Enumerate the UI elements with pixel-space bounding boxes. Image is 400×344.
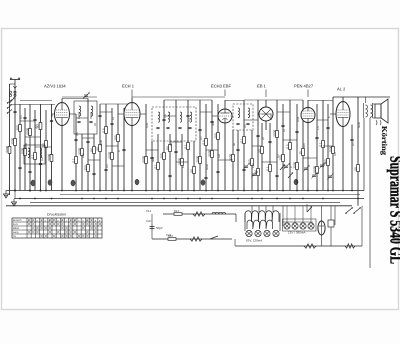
junction dot x152 y198 bbox=[151, 198, 153, 200]
resistor 5000 on x182 bbox=[177, 157, 183, 165]
svg-text:0,5: 0,5 bbox=[76, 132, 79, 136]
tube V6 AL 2 output bbox=[336, 102, 350, 127]
svg-text:Supramar S 5340 GL: Supramar S 5340 GL bbox=[387, 156, 400, 264]
wire vertical x158 bbox=[157, 134, 159, 191]
dial lamp x267 bbox=[264, 230, 270, 236]
wire top to T2 bbox=[100, 103, 132, 105]
wire vertical x358 bbox=[357, 97, 359, 206]
junction dot x297 y190 bbox=[296, 190, 298, 192]
potentiometer P1 (dark oval) bbox=[31, 180, 35, 186]
resistor 0,5 on x106 bbox=[101, 127, 107, 134]
wire lamp feed bbox=[282, 206, 284, 226]
svg-text:5000: 5000 bbox=[77, 147, 81, 154]
svg-text:100: 100 bbox=[213, 133, 217, 138]
wire bus (y202) bbox=[30, 201, 340, 203]
wire bbox=[151, 214, 153, 224]
scattered value labels bbox=[20, 114, 361, 170]
wire T4 top bbox=[265, 100, 267, 107]
svg-text:50: 50 bbox=[353, 167, 357, 171]
resistor 5000 on x112 bbox=[107, 151, 113, 159]
junction dot x82 y198 bbox=[81, 198, 83, 200]
capacitor on x317 bbox=[315, 137, 318, 138]
resistor 5000 on x233 bbox=[228, 153, 234, 161]
wire T6 down bbox=[342, 127, 344, 191]
svg-text:0,1: 0,1 bbox=[200, 136, 203, 140]
wire transformer right leg bbox=[279, 213, 281, 231]
ground (left) bbox=[3, 191, 8, 198]
wire T4 label lead bbox=[265, 90, 267, 98]
svg-text:100: 100 bbox=[82, 153, 85, 158]
svg-text:0,1: 0,1 bbox=[153, 164, 157, 169]
wire T2 cathode down bbox=[131, 126, 133, 191]
wire bbox=[234, 239, 236, 246]
svg-text:0,1: 0,1 bbox=[71, 158, 75, 163]
junction dot x333 y190 bbox=[332, 190, 334, 192]
junction dot x317 y190 bbox=[316, 190, 318, 192]
wire bbox=[370, 117, 372, 118]
svg-text:25: 25 bbox=[262, 137, 265, 140]
wire rectifier top bbox=[321, 206, 323, 221]
junction dot x88 y190 bbox=[87, 190, 89, 192]
capacitor on x88 bbox=[86, 141, 89, 142]
junction dot x35 y198 bbox=[34, 198, 36, 200]
wire vertical x218 bbox=[217, 104, 219, 191]
resistor 100 on x218 bbox=[213, 133, 219, 140]
wire T5 label lead bbox=[307, 90, 309, 98]
svg-text:0,5: 0,5 bbox=[101, 128, 105, 133]
wire vertical x262 bbox=[261, 123, 263, 191]
capacitor on x258 bbox=[256, 135, 259, 136]
svg-text:300: 300 bbox=[15, 125, 19, 130]
svg-text:300: 300 bbox=[35, 124, 38, 129]
IF trim capacitor 1 bbox=[156, 127, 159, 128]
junction dot x106 y198 bbox=[105, 198, 107, 200]
wire to speaker bottom bbox=[373, 117, 376, 119]
wire T5 top bbox=[307, 100, 309, 108]
wire vertical x94 bbox=[93, 134, 95, 191]
resistor 1M on x258 bbox=[253, 169, 259, 176]
wire transformer tap x273 bbox=[272, 206, 274, 212]
IF trim capacitor 3 bbox=[178, 127, 181, 128]
capacitor on x94 bbox=[92, 173, 95, 174]
resistor 5000 on x277 bbox=[272, 129, 278, 137]
wire vertical x352 bbox=[351, 125, 353, 191]
tube V5 PEN 4B27 bbox=[301, 108, 315, 123]
electrolytic capacitor 4 (dark oval) bbox=[294, 179, 298, 185]
output transformer secondary bbox=[371, 105, 373, 117]
svg-text:5000: 5000 bbox=[207, 149, 211, 156]
trimmer capacitor with arrow bbox=[283, 163, 290, 169]
junction dot x158 y190 bbox=[157, 190, 159, 192]
wire in box bbox=[78, 112, 80, 119]
wire vertical x146 bbox=[145, 104, 147, 191]
svg-text:5000: 5000 bbox=[5, 145, 9, 152]
IF transformer box (dashed) bbox=[152, 107, 196, 141]
resistor 300 on x252 bbox=[247, 159, 253, 166]
svg-text:1500: 1500 bbox=[328, 145, 332, 152]
antenna plug contact E2 bbox=[9, 94, 11, 96]
switch on x9.5 bbox=[10, 97, 15, 103]
capacitor on x106 bbox=[104, 169, 107, 170]
junction dot x30 y190 bbox=[29, 190, 31, 192]
pilot lamp box bbox=[283, 219, 317, 231]
trimmer capacitor 2 in upper box bbox=[89, 121, 92, 122]
wire vertical x88 bbox=[87, 99, 89, 191]
wire vertical x124 bbox=[123, 108, 125, 191]
IF trim capacitor 2 bbox=[166, 127, 169, 128]
wire vertical x258 bbox=[257, 100, 259, 191]
wire lamp lead x295 bbox=[294, 206, 296, 223]
pilot lamp x295 bbox=[292, 223, 298, 229]
svg-text:ECH3 EBF: ECH3 EBF bbox=[211, 84, 232, 89]
wire top rail output bbox=[333, 96, 390, 98]
junction dot x233 y190 bbox=[232, 190, 234, 192]
svg-text:Körting: Körting bbox=[380, 126, 389, 155]
svg-text:5000: 5000 bbox=[228, 153, 232, 160]
capacitor on x212 bbox=[210, 121, 213, 122]
mains transformer primary winding (loop chain) bbox=[245, 211, 279, 222]
antenna plug contact E1 bbox=[9, 91, 11, 93]
svg-text:0,1: 0,1 bbox=[265, 166, 269, 171]
wire vertical x106 bbox=[105, 104, 107, 191]
svg-text:50: 50 bbox=[189, 169, 193, 173]
svg-text:Drucktasten: Drucktasten bbox=[47, 213, 66, 217]
wire T1 top rail bbox=[62, 96, 97, 98]
capacitor on x164 bbox=[162, 119, 165, 120]
IF coil 1 bbox=[158, 112, 160, 122]
coil secondary in upper box bbox=[91, 106, 93, 116]
svg-text:AZ/V3 1834: AZ/V3 1834 bbox=[44, 84, 66, 89]
junction dot x182 y190 bbox=[181, 190, 183, 192]
short interconnect wires bbox=[20, 112, 333, 166]
wire transformer right bbox=[372, 103, 374, 118]
capacitor on x35 bbox=[33, 119, 36, 120]
choke row A bbox=[212, 212, 226, 214]
IF transformer box 2 bbox=[233, 104, 253, 130]
mains transformer secondary winding (loop chain) bbox=[247, 220, 273, 229]
junction dot x200 y198 bbox=[199, 198, 201, 200]
junction dot x15 y190 bbox=[14, 190, 16, 192]
speaker field coil bbox=[376, 120, 381, 125]
wire bbox=[245, 233, 246, 235]
wire vertical x170 bbox=[169, 134, 171, 191]
wire vertical x15 bbox=[14, 96, 16, 191]
svg-text:10: 10 bbox=[112, 117, 115, 120]
svg-text:300: 300 bbox=[212, 121, 215, 126]
svg-text:5000: 5000 bbox=[312, 165, 316, 172]
band filter box (lower left) bbox=[24, 145, 45, 164]
svg-text:0,1: 0,1 bbox=[183, 144, 187, 149]
svg-text:0,1: 0,1 bbox=[318, 142, 322, 147]
wire transformer tap x252 bbox=[251, 206, 253, 212]
wire rectifier bottom bbox=[321, 235, 323, 246]
svg-text:5000: 5000 bbox=[47, 153, 51, 160]
wire selector bbox=[306, 204, 308, 212]
wire vertical x362 power bbox=[361, 206, 363, 246]
junction dot x164 y198 bbox=[163, 198, 165, 200]
IF2 coil 2 bbox=[248, 108, 250, 118]
IF coil 3 bbox=[180, 112, 182, 122]
svg-text:0,1: 0,1 bbox=[20, 115, 23, 119]
capacitor on x51.5 bbox=[50, 120, 53, 121]
pilot lamp x303 bbox=[300, 223, 306, 229]
wire T6 top bbox=[342, 97, 344, 102]
wire bus chassis (y206) bbox=[6, 205, 352, 207]
wire vertical x323 bbox=[322, 100, 324, 191]
wire vertical x290 bbox=[289, 100, 291, 191]
wire vertical x164 bbox=[163, 100, 165, 191]
junction dot x290 y198 bbox=[289, 198, 291, 200]
resistor zigzag bottom power rail bbox=[304, 244, 316, 248]
resistor 614 row A bbox=[174, 209, 182, 216]
wire lamp lead x287 bbox=[286, 206, 288, 223]
junction dot x328 y190 bbox=[327, 190, 329, 192]
IF2 coil 1 bbox=[238, 108, 240, 118]
resistor 100 on x283 bbox=[278, 155, 284, 162]
junction dot x323 y198 bbox=[322, 198, 324, 200]
capacitor on x100 bbox=[98, 115, 101, 116]
wire vertical x182 bbox=[181, 134, 183, 191]
wire T5 down bbox=[307, 123, 309, 191]
IF coil 2 bbox=[168, 112, 170, 122]
resistor 300 on x328 bbox=[323, 159, 329, 166]
wire vertical x335 power bbox=[334, 206, 336, 225]
wire vertical x328 bbox=[327, 104, 329, 191]
svg-text:5000: 5000 bbox=[177, 157, 181, 164]
wire transformer left leg bbox=[244, 213, 246, 231]
resistor 2000 on x200 bbox=[195, 155, 201, 163]
resistor 50 on x100 bbox=[95, 145, 101, 152]
trimmer capacitor with arrow bbox=[243, 163, 250, 169]
wire T2 top bbox=[131, 98, 133, 103]
rule separating title margin bbox=[369, 118, 371, 268]
wire vertical x206 bbox=[205, 104, 207, 191]
resistor 0,5 on x290 bbox=[285, 143, 291, 150]
dial lamp x258 bbox=[255, 230, 261, 236]
junction dot x118 y198 bbox=[117, 198, 119, 200]
wire bus (y198) bbox=[14, 198, 364, 200]
capacitor on x218 bbox=[216, 171, 219, 172]
resistor 0,1 on x188 bbox=[183, 143, 189, 150]
svg-text:5000: 5000 bbox=[25, 127, 29, 134]
junction dot x100 y190 bbox=[99, 190, 101, 192]
capacitor on x244 bbox=[242, 169, 245, 170]
trimmer capacitor with arrow bbox=[311, 172, 318, 178]
potentiometer P2 (dark oval) bbox=[48, 180, 52, 186]
capacitor on x206 bbox=[204, 177, 207, 178]
capacitor on x283 bbox=[281, 125, 284, 126]
capacitor on x112 bbox=[110, 123, 113, 124]
svg-text:63V, 120mA: 63V, 120mA bbox=[246, 239, 262, 243]
junction dot x352 y190 bbox=[351, 190, 353, 192]
junction dot x343 y190 bbox=[342, 190, 344, 192]
resistor 5000 on x51.5 bbox=[47, 153, 53, 161]
wire vertical x40.5 bbox=[40, 104, 42, 191]
wire top rail left bbox=[20, 100, 52, 102]
junction dot x112 y190 bbox=[111, 190, 113, 192]
resistor 0,1 on x323 bbox=[318, 141, 324, 148]
wire T1 right electrode bbox=[70, 113, 77, 115]
svg-text:2000: 2000 bbox=[270, 114, 273, 120]
wire row A to transformer bbox=[235, 214, 237, 222]
resistor 50 on x46 bbox=[41, 141, 47, 148]
capacitor on x15 bbox=[13, 111, 16, 112]
junction dot x176 y198 bbox=[175, 198, 177, 200]
svg-text:0,1: 0,1 bbox=[352, 142, 355, 146]
capacitor on x25 bbox=[23, 117, 26, 118]
antenna plug contact A1 bbox=[14, 91, 16, 93]
svg-text:2000: 2000 bbox=[195, 155, 199, 162]
wire vertical x76 bbox=[75, 114, 77, 191]
svg-text:50: 50 bbox=[51, 114, 54, 117]
svg-text:1M: 1M bbox=[165, 146, 169, 151]
resistor 634 row B bbox=[168, 234, 176, 241]
wire vertical x244 bbox=[243, 100, 245, 191]
svg-text:0,3: 0,3 bbox=[334, 152, 337, 156]
svg-text:50: 50 bbox=[257, 149, 261, 153]
trimmer capacitor with arrow bbox=[319, 162, 326, 168]
svg-text:Bereich: Bereich bbox=[13, 219, 22, 222]
capacitor on x76 bbox=[74, 139, 77, 140]
IF trim capacitor 4 bbox=[188, 127, 191, 128]
capacitor on x124 bbox=[122, 149, 125, 150]
svg-text:500: 500 bbox=[152, 157, 155, 162]
wire from mains comp bbox=[330, 227, 332, 246]
switch (range) bbox=[288, 172, 293, 178]
svg-text:100: 100 bbox=[252, 163, 255, 168]
resistor 5000 on x30 bbox=[25, 127, 31, 135]
svg-text:10: 10 bbox=[283, 129, 286, 132]
svg-text:5000: 5000 bbox=[272, 129, 276, 136]
wire vertical x364 bbox=[363, 118, 365, 191]
wire vertical x317 bbox=[316, 104, 318, 191]
capacitor on x152 bbox=[150, 157, 153, 158]
wire bbox=[14, 191, 16, 199]
tube V2 ECH 1 bbox=[124, 103, 140, 126]
svg-text:Kurz: Kurz bbox=[13, 223, 19, 226]
junction dot x262 y198 bbox=[261, 198, 263, 200]
wire vertical x118 bbox=[117, 104, 119, 191]
junction dot x258 y190 bbox=[257, 190, 259, 192]
wire vertical x252 bbox=[251, 130, 253, 191]
svg-text:0,2: 0,2 bbox=[277, 154, 280, 158]
wire T3 down bbox=[224, 123, 226, 191]
capacitor on x170 bbox=[168, 175, 171, 176]
svg-text:1M: 1M bbox=[89, 148, 93, 153]
svg-text:1,5: 1,5 bbox=[317, 126, 320, 130]
resistor 0,1 on x158 bbox=[153, 163, 159, 170]
wire transformer tap x266 bbox=[265, 206, 267, 212]
table header ticks bbox=[28, 219, 101, 222]
junction dot x303 y198 bbox=[302, 198, 304, 200]
resistor 5000 on x146 bbox=[141, 155, 147, 163]
capacitor on x176 bbox=[174, 151, 177, 152]
resistor 5000 on x9.5 bbox=[5, 145, 11, 153]
resistor 1M on x170 bbox=[165, 145, 171, 152]
electrolytic capacitor 3 (dark oval) bbox=[201, 180, 205, 186]
wire T2 label lead bbox=[131, 90, 133, 99]
wire vertical x194 bbox=[193, 141, 195, 191]
IF2 trim cap 1 bbox=[236, 123, 239, 124]
dial lamp x249 bbox=[246, 230, 252, 236]
junction dot x132 y190 bbox=[131, 190, 133, 192]
junction dot x76 y190 bbox=[75, 190, 77, 192]
pilot lamp x287 bbox=[284, 223, 290, 229]
wire T3 grid bbox=[212, 115, 218, 117]
svg-text:0,1: 0,1 bbox=[239, 138, 243, 143]
pilot lamp x311 bbox=[308, 223, 314, 229]
capacitor on x200 bbox=[198, 129, 201, 130]
capacitor on x352 bbox=[350, 139, 353, 140]
capacitor on x328 bbox=[326, 127, 329, 128]
mains plug component bbox=[328, 220, 334, 227]
electrolytic capacitor (dark oval) bbox=[71, 180, 75, 186]
voltage selector arrow bbox=[307, 206, 312, 212]
resistor 5000 on x82 bbox=[77, 147, 83, 155]
wire vertical x46 bbox=[45, 110, 47, 191]
junction dot x20 y198 bbox=[19, 198, 21, 200]
junction dot x170 y190 bbox=[169, 190, 171, 192]
svg-text:0,5: 0,5 bbox=[285, 144, 289, 149]
wire bottom power rail y246 bbox=[235, 245, 362, 247]
svg-text:5000: 5000 bbox=[358, 122, 361, 128]
trimmer capacitor with arrow bbox=[327, 173, 334, 179]
svg-text:300: 300 bbox=[159, 153, 163, 158]
resistor 300 on x164 bbox=[159, 153, 165, 160]
svg-text:50µF: 50µF bbox=[156, 226, 163, 230]
svg-text:PEN 4B27: PEN 4B27 bbox=[294, 84, 314, 89]
resistor 300 on x20 bbox=[15, 125, 21, 132]
resistor zigzag row A bbox=[193, 212, 205, 216]
wire vertical x35 bbox=[34, 110, 36, 191]
junction dot x62 y190 bbox=[61, 190, 63, 192]
rectifier tube bbox=[318, 221, 325, 235]
svg-text:0,05: 0,05 bbox=[146, 122, 149, 128]
wire top rail T3-T4 bbox=[225, 100, 244, 102]
junction dot x206 y190 bbox=[205, 190, 207, 192]
junction dot x188 y198 bbox=[187, 198, 189, 200]
resistor 0,1 on x244 bbox=[239, 137, 245, 144]
antenna bbox=[10, 77, 20, 96]
junction dot x244 y190 bbox=[243, 190, 245, 192]
junction dot x252 y198 bbox=[251, 198, 253, 200]
ground (left 2) bbox=[11, 199, 16, 206]
band filter box (upper, after V1) bbox=[74, 101, 97, 134]
svg-text:0,05: 0,05 bbox=[297, 116, 300, 122]
wire vertical x20 bbox=[19, 104, 21, 191]
trimmer capacitor with arrow (top) bbox=[83, 92, 90, 98]
svg-text:25: 25 bbox=[298, 151, 302, 155]
wire vertical x238 bbox=[237, 130, 239, 191]
svg-text:Mittel: Mittel bbox=[13, 227, 20, 230]
trimmer capacitor with arrow bbox=[251, 171, 258, 177]
wire vertical x25 bbox=[24, 108, 26, 191]
capacitor on x277 bbox=[275, 175, 278, 176]
svg-text:0,3: 0,3 bbox=[188, 118, 191, 122]
wire top rail right bbox=[244, 99, 303, 101]
svg-text:1,5: 1,5 bbox=[164, 114, 167, 118]
wire vertical x30 bbox=[29, 104, 31, 191]
resistor 5000 on x317 bbox=[312, 165, 318, 173]
wire T6 grid bbox=[330, 113, 336, 115]
svg-text:100: 100 bbox=[113, 135, 117, 140]
dial lamp x276 bbox=[273, 230, 279, 236]
resistor zigzag row B bbox=[190, 237, 202, 241]
resistor 0,5 on x206 bbox=[201, 139, 207, 146]
junction dot x46 y190 bbox=[45, 190, 47, 192]
svg-text:40: 40 bbox=[170, 143, 173, 146]
svg-text:5000: 5000 bbox=[206, 164, 209, 170]
